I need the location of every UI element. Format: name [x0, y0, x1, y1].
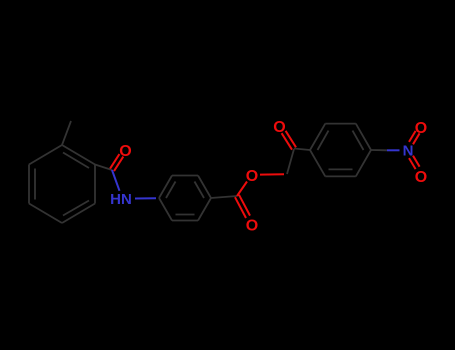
bond ketone C to ring C: [294, 149, 310, 151]
methyl CH3 on ring A (2-position): [62, 121, 71, 145]
bond ring C to nitro N: [371, 149, 387, 151]
ester C=O double bond (lower O): [235, 195, 250, 218]
svg-text:O: O: [415, 169, 427, 186]
nitro N=O double bond (upper): [409, 131, 420, 144]
bond CH2 to ketone C: [287, 149, 294, 174]
nitro N=O double bond (lower): [409, 156, 420, 169]
amide C=O double bond: [110, 154, 123, 171]
ketone C=O double bond: [282, 131, 296, 150]
svg-text:N: N: [403, 143, 414, 160]
bond ring A to amide carbonyl C: [95, 165, 112, 171]
benzene ring C (4-nitrophenyl): [310, 124, 371, 177]
bond ester O to CH2: [260, 173, 284, 175]
svg-text:O: O: [246, 218, 258, 235]
bond ring B to ester carbonyl C: [211, 196, 237, 198]
svg-text:O: O: [119, 143, 131, 160]
benzene ring B (central p-phenylene): [159, 176, 211, 221]
benzene ring A (2-methylphenyl, left): [29, 145, 95, 223]
svg-text:O: O: [273, 119, 285, 136]
bond N to ring B: [135, 197, 156, 199]
amide C-N bond: [112, 170, 120, 191]
ester C-O single bond (upper O): [237, 182, 247, 197]
svg-text:O: O: [415, 120, 427, 137]
svg-text:O: O: [246, 168, 258, 185]
svg-text:HN: HN: [110, 191, 132, 208]
